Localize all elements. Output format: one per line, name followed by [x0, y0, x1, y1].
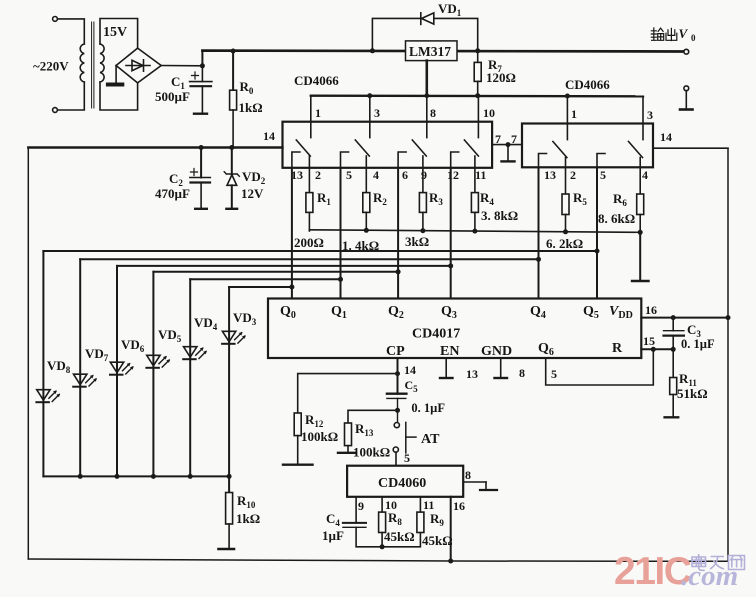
LED VD6: [116, 266, 118, 375]
svg-text:16: 16: [453, 499, 465, 513]
svg-text:V: V: [679, 26, 689, 41]
watermark text: [692, 554, 745, 570]
svg-text:3: 3: [374, 106, 380, 120]
counter IC CD4017: [268, 299, 641, 359]
resistor R8 45k: [381, 497, 383, 512]
svg-text:0. 1µF: 0. 1µF: [411, 401, 445, 415]
pin 8 wire with ground: [463, 481, 486, 483]
svg-text:1µF: 1µF: [322, 528, 344, 543]
svg-text:6: 6: [402, 168, 408, 182]
pin 9 wire + capacitor C4: [355, 497, 357, 523]
AC input terminal top: [53, 17, 58, 22]
svg-text:8. 6kΩ: 8. 6kΩ: [598, 211, 635, 226]
svg-text:CD4066: CD4066: [294, 73, 339, 88]
svg-text:1kΩ: 1kΩ: [236, 511, 260, 526]
resistor R3 3k: [422, 156, 424, 193]
svg-text:AT: AT: [421, 432, 440, 447]
ground pin7: [507, 145, 509, 161]
svg-text:CD4066: CD4066: [565, 77, 610, 92]
node bus Q1: [190, 278, 340, 280]
LED VD5: [152, 272, 154, 368]
AC input terminal bottom: [53, 108, 58, 113]
svg-text:5: 5: [551, 367, 557, 381]
svg-text:LM317: LM317: [409, 44, 451, 59]
resistor R5 6.2k: [565, 158, 567, 195]
pin EN stub: [445, 358, 447, 377]
switch S2: [355, 140, 369, 156]
svg-text:13: 13: [466, 367, 478, 381]
node bus Q5: [43, 250, 597, 252]
svg-text:7: 7: [495, 132, 501, 146]
regulator U LM317: [406, 41, 458, 61]
svg-text:51kΩ: 51kΩ: [677, 386, 708, 401]
svg-text:CD4060: CD4060: [378, 476, 426, 491]
svg-text:14: 14: [263, 129, 275, 143]
LED VD3: [228, 287, 230, 344]
svg-text:470µF: 470µF: [155, 186, 190, 201]
svg-text:0: 0: [691, 33, 696, 43]
svg-text:CD4017: CD4017: [412, 327, 460, 342]
switch S3: [412, 140, 426, 156]
pin 1 wire: [566, 96, 568, 140]
ADJ rail: [311, 94, 643, 97]
svg-text:9: 9: [358, 499, 364, 513]
wire: [57, 19, 84, 44]
svg-text:9: 9: [421, 168, 427, 182]
wire Q6 to R: [546, 349, 654, 385]
svg-text:1kΩ: 1kΩ: [239, 100, 263, 115]
resistor R0 1k: [231, 49, 236, 54]
transformer core: [91, 22, 93, 108]
wire right vertical: [727, 148, 729, 561]
node bus Q0: [229, 286, 292, 288]
svg-text:5: 5: [404, 451, 410, 465]
label output Vo: [651, 28, 677, 41]
node bus Q2: [153, 271, 398, 273]
svg-text:R: R: [612, 341, 623, 356]
pin 3 wire: [369, 96, 371, 138]
diode VD1: [370, 48, 375, 53]
svg-text:1: 1: [315, 106, 321, 120]
pin 15 R wire: [641, 348, 673, 350]
zener diode VD2: [231, 148, 233, 175]
svg-text:11: 11: [423, 498, 434, 512]
outer wire bottom: [28, 559, 728, 561]
svg-text:12V: 12V: [241, 186, 264, 201]
node bridge/C1: [200, 63, 205, 68]
svg-text:4: 4: [642, 168, 648, 182]
svg-text:10: 10: [483, 106, 495, 120]
output terminal Vo: [684, 49, 689, 54]
resistor R4 3.8k: [474, 156, 476, 193]
pin 16 wire: [450, 497, 452, 561]
svg-text:3: 3: [647, 108, 653, 122]
wire secondary top to bridge: [100, 19, 138, 49]
svg-text:15V: 15V: [103, 25, 127, 40]
pin 8 wire: [426, 96, 428, 138]
svg-text:~220V: ~220V: [33, 59, 69, 74]
svg-text:8: 8: [430, 106, 436, 120]
svg-text:3kΩ: 3kΩ: [405, 234, 429, 249]
svg-text:16: 16: [645, 303, 657, 317]
wire control Q2 vertical: [397, 168, 399, 299]
svg-text:0. 1µF: 0. 1µF: [681, 337, 715, 351]
svg-text:45kΩ: 45kΩ: [384, 529, 415, 544]
svg-text:GND: GND: [481, 344, 512, 359]
wire pin7 link: [492, 144, 522, 146]
LED VD7: [79, 259, 81, 386]
svg-text:2: 2: [315, 168, 321, 182]
pin GND stub: [500, 358, 502, 377]
main +V rail: [202, 49, 686, 53]
svg-text:15: 15: [643, 334, 655, 348]
resistor R13 100k: [395, 408, 400, 413]
ground at bridge: [115, 66, 117, 84]
svg-text:45kΩ: 45kΩ: [422, 533, 453, 548]
wire control Q4 vertical: [538, 167, 540, 298]
wire control Q0 vertical: [291, 168, 293, 299]
capacitor C3: [672, 318, 674, 331]
switch S6: [629, 142, 643, 158]
svg-text:14: 14: [404, 363, 416, 377]
capacitor C1: [201, 66, 203, 82]
pin 1 wire: [310, 96, 312, 138]
resistor R9 45k: [419, 497, 421, 512]
resistor R11 51k: [672, 349, 674, 377]
resistor R1 200: [308, 156, 310, 193]
switch S5: [553, 142, 567, 158]
svg-text:12: 12: [447, 168, 459, 182]
svg-text:8: 8: [465, 468, 471, 482]
ground R6: [639, 232, 641, 280]
svg-text:.com: .com: [681, 560, 738, 592]
LED VD4: [189, 279, 191, 359]
timer IC CD4060: [347, 466, 463, 497]
pin 16 VDD wire: [641, 317, 728, 319]
svg-text:7: 7: [511, 132, 517, 146]
transformer T primary winding: [80, 44, 84, 82]
svg-text:5: 5: [600, 168, 606, 182]
pin 3 wire: [642, 96, 644, 139]
pin 10 wire: [477, 96, 479, 138]
svg-text:120Ω: 120Ω: [486, 70, 516, 85]
switch S1: [296, 140, 310, 156]
svg-text:100kΩ: 100kΩ: [353, 445, 390, 460]
bridge rectifier: [116, 48, 161, 83]
svg-text:2: 2: [570, 168, 576, 182]
svg-text:1: 1: [571, 107, 577, 121]
wire: [57, 82, 84, 110]
node bus Q4: [80, 258, 538, 260]
svg-text:14: 14: [660, 130, 672, 144]
capacitor C5: [387, 393, 407, 395]
svg-text:11: 11: [475, 168, 486, 182]
svg-text:13: 13: [544, 168, 556, 182]
rail2 VDD bus: [28, 146, 282, 148]
wire secondary bottom to bridge: [100, 82, 138, 110]
svg-text:CP: CP: [386, 344, 405, 359]
wire LED common rail: [43, 475, 229, 477]
pin 14 wire U2: [653, 147, 728, 149]
wire control Q5 vertical: [596, 167, 598, 298]
LED VD8: [42, 251, 44, 402]
svg-text:5: 5: [346, 168, 352, 182]
switch S4: [464, 140, 478, 156]
outer wire left: [27, 148, 29, 560]
ground terminal: [684, 86, 689, 91]
resistor R12 100k: [298, 374, 398, 413]
resistor R6 8.6k: [639, 158, 641, 195]
resistor R10 1k: [228, 476, 230, 492]
wire up to main rail: [201, 51, 203, 66]
wire LM317 ADJ: [425, 61, 428, 96]
wire CP: [397, 358, 399, 394]
wire bridge output: [161, 65, 202, 67]
resistor R2 1.4k: [365, 156, 367, 193]
capacitor C2: [200, 148, 202, 178]
svg-text:200Ω: 200Ω: [294, 235, 324, 250]
pushbutton AT: [394, 423, 399, 428]
svg-text:6. 2kΩ: 6. 2kΩ: [546, 236, 583, 251]
svg-text:8: 8: [519, 366, 525, 380]
wire control Q1 vertical: [340, 168, 342, 299]
resistor R7 120: [477, 51, 479, 63]
node bus Q3: [117, 265, 451, 267]
svg-text:100kΩ: 100kΩ: [301, 429, 338, 444]
svg-text:EN: EN: [440, 344, 459, 359]
svg-text:4: 4: [373, 168, 379, 182]
svg-text:500µF: 500µF: [155, 89, 190, 104]
svg-text:3. 8kΩ: 3. 8kΩ: [481, 208, 518, 223]
wire resistor common bus: [309, 230, 640, 233]
wire control Q3 vertical: [450, 168, 452, 299]
transformer secondary winding: [100, 44, 104, 82]
